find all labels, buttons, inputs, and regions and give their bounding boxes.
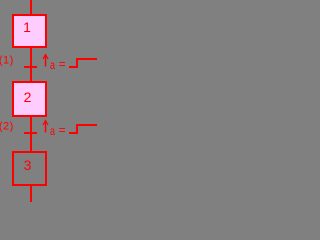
svg-text:(2): (2) xyxy=(0,121,13,133)
svg-text:2: 2 xyxy=(24,89,32,105)
transition (2) condition: rising-edge waveform riser xyxy=(76,124,78,134)
transition bar (2) xyxy=(24,132,37,134)
step 3 box xyxy=(13,152,46,185)
transition (2) condition: rising-edge waveform low segment xyxy=(69,132,77,134)
transition (1) condition: rising-edge waveform low segment xyxy=(69,66,77,68)
svg-text:a: a xyxy=(50,58,55,72)
svg-text:3: 3 xyxy=(24,157,32,173)
svg-text:=: = xyxy=(59,123,66,137)
transition (2) condition: rising-edge waveform high segment xyxy=(76,124,97,126)
svg-text:a: a xyxy=(50,124,55,138)
step 2 box xyxy=(13,82,46,116)
svg-text:(1): (1) xyxy=(0,55,13,67)
transition (1) condition: rising-edge waveform riser xyxy=(76,58,78,68)
transition (1) condition: rising-edge waveform high segment xyxy=(76,58,97,60)
transition (2) condition: rising edge arrow xyxy=(45,121,47,133)
wire: main vertical rail xyxy=(30,0,32,202)
transition (1) condition: rising edge arrow xyxy=(45,55,47,67)
transition bar (1) xyxy=(24,66,37,68)
svg-text:1: 1 xyxy=(23,19,31,35)
step 1 box xyxy=(13,15,46,47)
svg-text:=: = xyxy=(59,57,66,71)
